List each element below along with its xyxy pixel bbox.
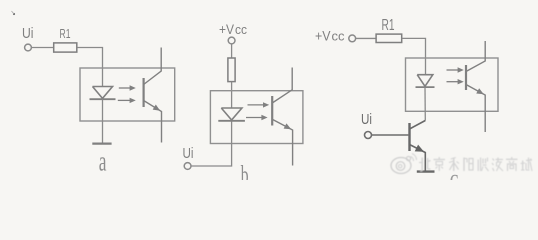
ground (a) xyxy=(92,143,111,145)
wire Ui-a to R1 xyxy=(32,47,54,49)
svg-text:Ui: Ui xyxy=(22,25,34,42)
light arrow 2 (a) xyxy=(118,98,136,103)
LED D1 (a) xyxy=(90,87,116,100)
light arrow 1 (a) xyxy=(119,85,136,90)
resistor R1 (a) xyxy=(54,43,77,52)
svg-text:Ui: Ui xyxy=(183,145,194,162)
Q1 emitter arrow xyxy=(415,145,424,152)
emitter arrow (a) xyxy=(153,104,161,110)
svg-text:a: a xyxy=(99,147,107,178)
phototransistor base bar (c) xyxy=(465,65,467,90)
svg-text:b: b xyxy=(241,160,249,180)
phototransistor emitter (a) xyxy=(144,101,162,143)
light arrow 2 (c) xyxy=(447,79,464,84)
label Ui (input b) xyxy=(183,145,194,162)
optocoupler box U1 (b) xyxy=(210,91,303,144)
terminal Ui c xyxy=(365,132,372,139)
phototransistor base bar (b) xyxy=(271,96,273,126)
ground (c) xyxy=(417,170,435,172)
LED D1 (c) xyxy=(416,75,435,87)
phototransistor collector (a) xyxy=(144,48,162,85)
terminal +Vcc c xyxy=(349,35,356,42)
phototransistor collector (c) xyxy=(466,41,485,72)
label +Vcc (c) xyxy=(315,28,345,44)
wire Vcc-c to R1 xyxy=(356,37,376,39)
terminal Ui a xyxy=(25,44,32,51)
LED D1 (b) xyxy=(218,108,245,121)
wire R-b to LED anode xyxy=(231,82,233,109)
terminal Ui b xyxy=(184,163,191,170)
LED cathode wire (a) xyxy=(102,99,104,143)
emitter arrow (b) xyxy=(284,123,292,129)
light arrow 2 (b) xyxy=(246,115,268,120)
svg-text:cc: cc xyxy=(235,23,247,37)
svg-text:R1: R1 xyxy=(60,27,71,41)
wire R1-a to LED anode xyxy=(77,48,103,87)
label b xyxy=(241,160,249,189)
svg-text:cc: cc xyxy=(332,30,345,44)
label c (clipped) xyxy=(450,164,459,192)
label Ui (input a) xyxy=(22,25,34,42)
transistor Q1 collector xyxy=(410,121,426,130)
label +Vcc (b) xyxy=(219,21,247,37)
light arrow 1 (c) xyxy=(447,67,464,72)
resistor R (b) xyxy=(228,58,235,82)
transistor Q1 emitter xyxy=(410,145,426,172)
LED cathode wire (b) xyxy=(191,122,232,167)
transistor Q1 base bar xyxy=(408,123,410,151)
svg-text:R1: R1 xyxy=(382,17,395,34)
label Ui (input c) xyxy=(361,112,372,128)
phototransistor emitter (c) xyxy=(466,85,485,133)
label R1 (a) xyxy=(60,27,71,41)
paper background xyxy=(0,0,538,180)
label a xyxy=(99,147,107,178)
wire Vcc-b to R xyxy=(231,44,233,58)
svg-text:+V: +V xyxy=(315,28,331,44)
resistor R1 (c) xyxy=(376,34,402,42)
speck top-left xyxy=(12,11,16,15)
phototransistor base bar (a) xyxy=(143,78,145,107)
optocoupler box U1 (a) xyxy=(80,68,175,121)
phototransistor emitter (b) xyxy=(272,119,292,165)
watermark text xyxy=(419,157,532,171)
svg-text:Ui: Ui xyxy=(361,112,372,128)
LED cathode wire (c) xyxy=(424,87,426,120)
optocoupler box U1 (c) xyxy=(406,58,499,111)
wire Ui-c to Q1 base xyxy=(372,134,409,136)
label R1 (c) xyxy=(382,17,395,34)
wire R1-c to LED anode xyxy=(402,38,426,75)
light arrow 1 (b) xyxy=(248,102,270,107)
emitter arrow (c) xyxy=(476,88,484,94)
watermark logo xyxy=(391,154,417,174)
phototransistor collector (b) xyxy=(272,68,292,104)
svg-text:+V: +V xyxy=(219,21,235,37)
terminal +Vcc b xyxy=(228,37,235,44)
